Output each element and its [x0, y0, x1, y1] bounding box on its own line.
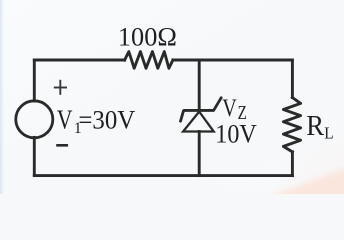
- svg-text:10V: 10V: [215, 119, 257, 148]
- svg-text:R: R: [306, 111, 324, 142]
- svg-text:V: V: [57, 104, 73, 134]
- svg-text:L: L: [324, 124, 333, 143]
- svg-text:100Ω: 100Ω: [118, 22, 177, 52]
- svg-text:V: V: [222, 95, 237, 122]
- svg-text:=30V: =30V: [78, 105, 135, 134]
